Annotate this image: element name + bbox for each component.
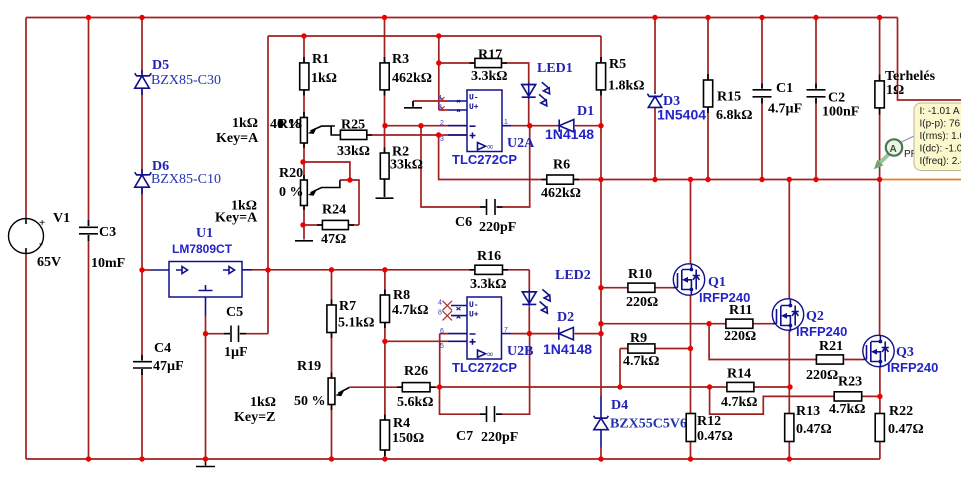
resistor R17 [470,48,508,85]
wire R21 branch and gate line [709,324,862,360]
wire pin2 line y=125.7 [385,125,467,127]
svg-text:1: 1 [504,119,508,126]
svg-text:R25: R25 [341,118,365,133]
wire 9V bus y=36 [268,35,601,37]
resistor R9 [623,331,660,369]
node U2B output junction [527,331,532,336]
wire feedback line y=387 [440,386,791,388]
svg-text:1N4148: 1N4148 [543,341,592,357]
svg-text:3: 3 [440,136,444,143]
wire probe orange segment [880,179,961,181]
svg-text:40 %: 40 % [270,117,302,132]
svg-text:150Ω: 150Ω [392,431,424,446]
wire R26-wiper segment [349,386,439,388]
wire Q2 source-R13 [788,331,790,460]
svg-text:R26: R26 [404,364,428,379]
node C5 junction [203,331,208,336]
resistor R12 [686,414,733,445]
svg-text:R19: R19 [297,359,321,374]
svg-text:R3: R3 [392,52,409,67]
svg-text:R21: R21 [819,339,843,354]
svg-text:R4: R4 [393,416,410,431]
wire R7-R19 vertical [331,270,333,459]
svg-text:1.8kΩ: 1.8kΩ [608,79,645,94]
svg-text:1N5404: 1N5404 [657,107,706,123]
svg-text:IRFP240: IRFP240 [699,290,750,305]
wire right edge feed [898,18,961,101]
svg-text:4: 4 [438,300,442,307]
svg-text:R10: R10 [628,267,652,282]
wire Q2 drain [788,180,790,299]
svg-text:10mF: 10mF [91,256,125,271]
svg-text:R12: R12 [697,414,721,429]
svg-text:47µF: 47µF [153,359,184,374]
capacitor C6 [455,199,516,235]
wire U1 ground leg [205,316,207,460]
svg-text:1kΩ: 1kΩ [311,71,337,86]
svg-text:Q1: Q1 [708,275,726,290]
svg-text:7: 7 [504,327,508,334]
wire op-amp supply riser x=438.8 [438,36,440,110]
svg-text:33kΩ: 33kΩ [337,144,370,159]
capacitor C2 [807,84,860,120]
svg-text:R5: R5 [609,57,626,72]
svg-text:R20: R20 [279,166,303,181]
svg-text:C7: C7 [456,429,473,444]
potentiometer R19 [234,359,349,425]
resistor R6 [541,158,581,202]
svg-text:A: A [890,144,897,155]
resistor R14 [721,367,758,411]
probe arrow [880,154,890,164]
wire main right riser x=601 [600,126,602,459]
svg-text:1Ω: 1Ω [886,83,904,98]
svg-text:0.47Ω: 0.47Ω [796,422,832,437]
wire C2 vertical [815,18,817,180]
svg-text:33kΩ: 33kΩ [390,158,423,173]
svg-text:R11: R11 [729,303,752,318]
wire pin8 stub [439,109,448,111]
svg-text:U2B: U2B [507,344,533,359]
svg-text:I: -1.01 A: I: -1.01 A [920,106,960,117]
svg-text:4: 4 [438,95,442,102]
svg-text:0.47Ω: 0.47Ω [888,422,924,437]
svg-text:Key=A: Key=A [216,131,259,146]
probe ammeter circle [886,139,902,155]
wire U2B output to D2 [511,333,601,335]
svg-text:I(rms): 1.0: I(rms): 1.0 [920,131,961,142]
svg-text:4.7kΩ: 4.7kΩ [829,402,866,417]
node feedback line junctions [437,384,442,389]
node 9V bus junctions [301,33,306,38]
svg-text:220Ω: 220Ω [724,329,756,344]
node top bus junctions [86,15,91,20]
wire 9V riser x=268 [267,36,269,334]
svg-text:I(p-p): 76.: I(p-p): 76. [920,119,961,130]
wire R10 gate line [601,287,674,289]
capacitor C4 [133,341,184,375]
node pin5 junction [382,339,387,344]
zener diode D6 [135,159,221,194]
wire D3 vertical [654,18,656,180]
svg-text:47Ω: 47Ω [321,232,346,247]
svg-text:C2: C2 [828,91,845,106]
svg-text:4.7kΩ: 4.7kΩ [721,395,758,410]
svg-text:5.1kΩ: 5.1kΩ [338,316,375,331]
svg-text:LED1: LED1 [537,61,573,76]
wire R15 vertical [707,18,709,180]
node R17 junction [436,60,441,65]
svg-text:LED2: LED2 [555,268,591,283]
svg-text:8: 8 [438,310,442,317]
source V1 [9,211,71,270]
svg-text:D2: D2 [557,310,574,325]
potentiometer R20 [215,166,340,226]
node R20 wiper junction [347,177,352,182]
node gate drive junctions [598,285,603,290]
svg-text:0.47Ω: 0.47Ω [697,429,733,444]
capacitor C5 [224,305,248,360]
wire R11 gate line [601,323,773,325]
svg-text:462kΩ: 462kΩ [392,71,432,86]
svg-text:2: 2 [440,120,444,127]
svg-text:1N4148: 1N4148 [545,126,594,142]
svg-text:220Ω: 220Ω [806,368,838,383]
node R9 source junction [688,346,693,351]
resistor R26 [397,364,436,410]
svg-text:R8: R8 [393,288,410,303]
wire Q3 source-R22 [879,367,881,459]
wire U2A output to D1 to R5 [511,125,601,127]
svg-text:R9: R9 [630,331,647,346]
resistor R15 [704,74,753,123]
wire R9 left leg [619,349,621,388]
wire Q1 drain [690,180,692,264]
svg-text:U2A: U2A [507,136,535,151]
svg-text:C3: C3 [99,225,116,240]
diode D2 1N4148 [543,310,592,357]
svg-text:D4: D4 [611,398,628,413]
svg-text:5.6kΩ: 5.6kΩ [397,395,434,410]
svg-text:R15: R15 [717,90,741,105]
svg-text:1µF: 1µF [224,345,248,360]
svg-text:I(freq): 2.4: I(freq): 2.4 [920,156,961,167]
op-amp U2B TLC272CP [438,297,533,375]
svg-text:Key=Z: Key=Z [234,410,275,425]
svg-text:Terhelés: Terhelés [885,69,936,84]
diode D1 1N4148 [545,104,594,142]
svg-text:R13: R13 [796,404,820,419]
node pin2 line junctions [382,123,387,128]
transistor Q2 IRFP240 [772,299,847,339]
svg-text:TLC272CP: TLC272CP [452,152,517,167]
svg-text:∞: ∞ [487,142,493,152]
wire C1 vertical [761,18,763,180]
wire R9 line [620,348,691,350]
node pin3 junction [436,132,441,137]
wire R8-R4 vertical [384,270,386,459]
resistor R8 [380,288,428,328]
svg-text:Q3: Q3 [896,345,914,360]
svg-text:U-: U- [469,301,479,310]
node mid bus junctions [598,177,603,182]
wire pin6 drop x=439.7 [440,334,448,387]
node output junction U2A [527,123,532,128]
svg-text:∞: ∞ [487,349,493,359]
wire C3 vertical [88,18,90,460]
wire C6 feedback loop [421,126,530,207]
LED2 [522,268,590,313]
resistor R23 [829,375,866,418]
svg-text:I(dc): -1.0: I(dc): -1.0 [920,144,961,155]
svg-text:R16: R16 [477,249,501,264]
svg-text:BZX85-C30: BZX85-C30 [151,73,221,88]
svg-text:R1: R1 [312,52,329,67]
svg-text:U+: U+ [469,103,479,112]
capacitor C7 [456,406,518,445]
resistor R21 [806,339,843,383]
wire U1 input stub [142,269,151,271]
node R24 left junction [300,222,305,227]
wire Q3 drain [879,180,881,336]
wire U1 output line y=269.8 [252,269,529,271]
svg-text:220pF: 220pF [481,430,518,445]
wire C7 loop [440,334,530,415]
LED1 [522,61,573,106]
svg-text:Q2: Q2 [806,309,824,324]
svg-text:1kΩ: 1kΩ [232,116,258,131]
svg-text:C5: C5 [226,305,243,320]
svg-text:50 %: 50 % [294,394,326,409]
resistor R13 [785,404,832,442]
svg-text:0 %: 0 % [279,185,304,200]
svg-text:LM7809CT: LM7809CT [172,242,233,256]
capacitor C3 [79,220,125,271]
zener diode D4 BZX55C5V6 [594,396,687,448]
svg-text:IRFP240: IRFP240 [796,324,847,339]
svg-text:U+: U+ [469,311,479,320]
svg-text:U1: U1 [196,226,213,241]
wire R1-R18-R20 chain [303,36,305,240]
svg-text:3.3kΩ: 3.3kΩ [470,277,507,292]
node bottom bus junctions [86,456,91,461]
svg-text:220pF: 220pF [479,220,516,235]
svg-text:R14: R14 [727,367,751,382]
ground below R20 [295,240,313,241]
transistor Q3 IRFP240 [863,335,939,375]
wire mid bus y=179.5 [601,179,880,181]
node U1 line junctions [139,267,144,272]
node R23 source junction [877,394,882,399]
resistor R7 [327,299,375,338]
svg-text:TLC272CP: TLC272CP [452,360,517,375]
diode D3 1N5404 [647,92,706,123]
wire pin5 line [385,340,448,342]
wire R17 line [439,63,529,83]
svg-text:R24: R24 [322,203,346,218]
wire LED1 to output junction [528,99,530,126]
wire load vertical [879,18,881,180]
svg-text:Key=A: Key=A [215,211,258,226]
op-amp U2A TLC272CP [438,90,535,167]
transistor Q1 IRFP240 [673,264,750,305]
wire R23 jog [710,387,880,414]
resistor R24 [317,203,354,248]
svg-text:R23: R23 [838,375,862,390]
resistor R2 [380,145,423,186]
svg-text:220Ω: 220Ω [626,295,658,310]
resistor R5 [596,57,644,96]
svg-text:100nF: 100nF [822,105,859,120]
resistor R3 [380,52,432,96]
ground at U2A pin4 [404,101,422,108]
ground below R2 [376,185,394,198]
svg-text:462kΩ: 462kΩ [541,186,581,201]
resistor R25 [331,118,372,160]
wire pin3 riser to R6 line [439,135,601,180]
wire D5-D6-C4 vertical [141,18,143,460]
resistor R1 [300,52,337,96]
zener diode D5 [135,58,221,95]
resistor R10 [626,267,658,310]
ground main bottom [196,459,215,467]
svg-text:C4: C4 [154,341,171,356]
capacitor C1 [753,81,803,117]
wire pin4 ground stub [413,101,448,106]
svg-text:4.7kΩ: 4.7kΩ [623,354,660,369]
regulator U1 LM7809CT [151,226,252,316]
svg-text:R22: R22 [889,404,913,419]
svg-text:8: 8 [438,104,442,111]
svg-text:4.7µF: 4.7µF [768,102,802,117]
resistor R4 [380,415,424,457]
wire Q1 source-R12 [690,296,692,460]
wire top bus 65V rail [26,17,898,19]
wire R20-R24 loop [303,162,359,225]
svg-text:R17: R17 [478,48,502,63]
load resistor Torheles [875,69,936,115]
measurement info box [914,103,961,171]
svg-text:D1: D1 [577,104,594,119]
wire left vertical V1 branch [25,18,27,460]
resistor R22 [875,404,924,442]
svg-text:-: - [39,236,43,250]
svg-text:U-: U- [469,94,479,103]
probe connector line [901,136,916,143]
svg-text:4.7kΩ: 4.7kΩ [392,303,429,318]
svg-text:5: 5 [440,343,444,350]
svg-text:V1: V1 [53,211,70,226]
svg-text:BZX85-C10: BZX85-C10 [151,172,221,187]
wire bottom ground bus [26,458,880,460]
svg-text:6: 6 [440,328,444,335]
svg-text:C1: C1 [776,81,793,96]
wire C5 line [206,333,269,335]
svg-text:C6: C6 [455,215,472,230]
wire R5 vertical [600,36,602,126]
svg-text:BZX55C5V6: BZX55C5V6 [610,417,687,432]
resistor R16 [470,249,509,292]
wire R3-R2 vertical [384,18,386,197]
svg-text:R6: R6 [553,158,570,173]
svg-text:3.3kΩ: 3.3kΩ [471,69,508,84]
wire R16 corner to LED2 [528,270,530,334]
node R18-R20 junction [300,159,305,164]
svg-text:6.8kΩ: 6.8kΩ [716,108,753,123]
svg-text:+: + [39,217,45,229]
wire R25 to pin3 line [367,134,467,136]
svg-text:IRFP240: IRFP240 [887,360,938,375]
svg-text:1kΩ: 1kΩ [250,395,276,410]
svg-text:65V: 65V [37,255,61,270]
resistor R11 [724,303,756,344]
svg-text:R7: R7 [339,299,356,314]
svg-text:D5: D5 [152,58,169,73]
potentiometer R18 [216,112,331,148]
